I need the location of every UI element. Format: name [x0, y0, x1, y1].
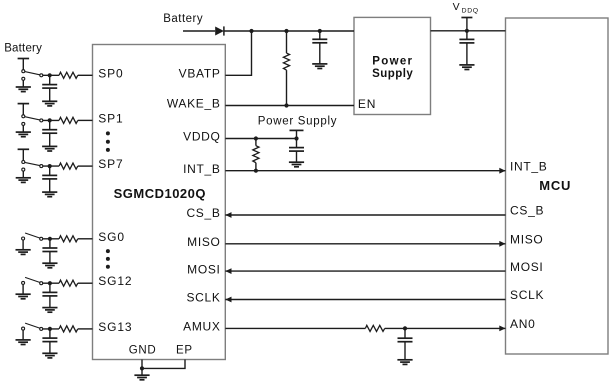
wire S5 to R row5	[43, 282, 59, 284]
ground for S4 contact	[16, 250, 31, 255]
svg-text:CS_B: CS_B	[186, 206, 220, 220]
capacitor C4 AMUX filter	[398, 328, 413, 341]
wire C2 to ground	[466, 43, 468, 65]
junction node row 3	[48, 164, 52, 168]
power supply tap symbol	[290, 130, 304, 138]
svg-text:MISO: MISO	[510, 233, 543, 247]
capacitor C row6	[42, 329, 57, 342]
ground contact of S1	[22, 77, 25, 87]
svg-text:WAKE_B: WAKE_B	[167, 97, 221, 111]
ground for C row5	[42, 308, 57, 313]
ground for S5 contact	[16, 294, 31, 299]
svg-text:Power: Power	[372, 56, 413, 68]
ground contact of S3	[22, 168, 25, 178]
wire R row4 to pin	[78, 238, 93, 240]
svg-text:EN: EN	[358, 97, 376, 111]
svg-text:VDDQ: VDDQ	[183, 130, 220, 144]
wire C row2 to ground	[49, 133, 51, 146]
ground for C4	[397, 360, 412, 365]
ground for C row6	[42, 353, 57, 358]
svg-text:Battery: Battery	[163, 13, 203, 25]
capacitor C row3	[42, 166, 57, 179]
svg-text:SP1: SP1	[98, 111, 123, 125]
wire C row4 to ground	[49, 252, 51, 264]
junction node battery rail to R-wake	[284, 29, 288, 33]
arrowhead MISO into MCU	[499, 241, 505, 247]
switch S3 (switch-to-battery)	[22, 161, 43, 168]
svg-text:CS_B: CS_B	[510, 204, 544, 218]
wire D1 cathode to power supply VIN	[224, 30, 354, 32]
wire C row6 to ground	[49, 342, 51, 354]
wire C row5 to ground	[49, 296, 51, 308]
svg-text:SGMCD1020Q: SGMCD1020Q	[114, 186, 206, 201]
svg-text:MCU: MCU	[539, 178, 571, 193]
svg-text:Supply: Supply	[372, 68, 413, 80]
wire battery to diode D1 anode	[183, 30, 215, 32]
junction node VDDQ rail	[465, 29, 469, 33]
switch S1 (switch-to-battery)	[22, 70, 43, 77]
junction node R2 on WAKE_B net	[284, 103, 288, 107]
junction node VDDQ pin to C3	[294, 136, 298, 140]
ground for S6 contact	[16, 340, 31, 345]
svg-text:SP7: SP7	[98, 157, 123, 171]
wire R row6 to pin	[78, 328, 93, 330]
power supply module U2 block	[354, 17, 431, 114]
switch S6 (switch-to-ground, open)	[25, 323, 43, 330]
svg-text:Battery: Battery	[4, 43, 42, 55]
svg-text:INT_B: INT_B	[510, 159, 548, 173]
capacitor C3 VDDQ pin decoupling	[289, 139, 304, 152]
capacitor C1 battery rail	[312, 31, 327, 43]
wire CS_B net	[225, 214, 505, 216]
ground for GND and EP pins	[134, 375, 149, 380]
wire R row2 to pin	[78, 119, 93, 121]
resistor R3 VDDQ pull-up for INT_B	[253, 146, 259, 163]
wire C row1 to ground	[49, 88, 51, 101]
diode D1	[215, 26, 224, 35]
junction node row 6	[48, 327, 52, 331]
arrowhead CS_B into U1	[225, 212, 231, 218]
arrowhead MOSI into U1	[225, 268, 231, 274]
ground contact of switch S5	[22, 281, 25, 294]
wire S6 to R row6	[43, 328, 59, 330]
wire SCLK net	[225, 299, 505, 301]
svg-text:SP0: SP0	[98, 66, 123, 80]
resistor R row3 series	[59, 163, 78, 169]
wire C1 to ground	[319, 43, 321, 64]
battery feed bar for switch S2	[18, 104, 30, 115]
svg-text:AN0: AN0	[510, 317, 535, 331]
junction node row 1	[48, 73, 52, 77]
MCU U3 block	[506, 18, 609, 354]
svg-text:GND: GND	[129, 345, 157, 357]
IC U1 SGMCD1020Q block	[93, 45, 226, 360]
ellipsis dots SP1..SP7	[106, 131, 110, 152]
ground for C row4	[42, 263, 57, 268]
wire VDDQ pin net	[225, 138, 296, 140]
wire INT_B net	[225, 170, 505, 172]
wire GND pin to ground	[141, 360, 143, 376]
ground for C2	[459, 65, 474, 70]
wire power supply output to MCU VDD	[431, 30, 506, 32]
junction node row 5	[48, 281, 52, 285]
junction node VDDQ pin to R3	[254, 136, 258, 140]
wire S3 to R row3	[43, 165, 59, 167]
svg-text:EP: EP	[176, 345, 193, 357]
ground for C3	[289, 162, 304, 167]
ground for C row1	[42, 101, 57, 106]
ground for C row3	[42, 192, 57, 197]
switch S5 (switch-to-ground, open)	[25, 277, 43, 284]
arrowhead INT_B into MCU	[499, 168, 505, 174]
svg-text:Power Supply: Power Supply	[258, 115, 337, 127]
wire S1 to R row1	[43, 74, 59, 76]
capacitor C row5	[42, 283, 57, 296]
ground for S3 contact	[16, 178, 31, 183]
svg-text:V: V	[453, 1, 460, 13]
junction node row 2	[48, 118, 52, 122]
svg-text:MOSI: MOSI	[187, 262, 220, 276]
switch S2 (switch-to-battery)	[22, 115, 43, 122]
junction node VBAT_D at battery rail	[249, 29, 253, 33]
ground for S2 contact	[16, 132, 31, 137]
resistor R4 AMUX series	[365, 325, 384, 331]
ellipsis dots SG0..SG12	[106, 249, 110, 269]
wire R2 bottom to WAKE_B net	[286, 70, 288, 105]
wire MOSI net	[225, 270, 505, 272]
svg-text:MOSI: MOSI	[510, 260, 543, 274]
wire S4 to R row4	[43, 238, 59, 240]
svg-text:AMUX: AMUX	[183, 320, 220, 334]
resistor R row1 series	[59, 72, 78, 78]
wire C row3 to ground	[49, 179, 51, 192]
svg-text:SG13: SG13	[98, 320, 132, 334]
ground contact of switch S4	[22, 237, 25, 250]
wire C4 to ground	[404, 342, 406, 360]
ground contact of switch S6	[22, 327, 25, 340]
VDDQ supply symbol	[461, 18, 472, 31]
battery feed bar for switch S3	[18, 149, 30, 160]
battery feed bar for switch S1	[18, 59, 30, 70]
ground for C1	[312, 64, 327, 69]
wire C3 to ground	[296, 151, 298, 162]
wire AMUX pin to R4	[225, 327, 365, 329]
svg-text:SCLK: SCLK	[510, 288, 544, 302]
capacitor C row4	[42, 239, 57, 252]
arrowhead SCLK into U1	[225, 297, 231, 303]
wire R3 bottom to INT_B net	[255, 163, 257, 171]
ground for C row2	[42, 146, 57, 151]
svg-text:SG12: SG12	[98, 274, 132, 288]
capacitor C2 VDDQ decoupling	[459, 31, 474, 43]
svg-text:MISO: MISO	[187, 235, 220, 249]
wire R row3 to pin	[78, 165, 93, 167]
svg-text:SCLK: SCLK	[186, 291, 220, 305]
wire S2 to R row2	[43, 119, 59, 121]
capacitor C row1	[42, 75, 57, 88]
resistor R2 battery rail to WAKE_B	[283, 53, 289, 70]
wire R4 to AN0 pin	[385, 327, 506, 329]
wire VDDQ to R3 top	[255, 139, 257, 146]
ground contact of S2	[22, 122, 25, 132]
capacitor C row2	[42, 120, 57, 133]
junction node row 4	[48, 237, 52, 241]
wire MISO net	[225, 243, 505, 245]
resistor R row6 series	[59, 326, 78, 332]
arrowhead AN0 into MCU	[499, 326, 505, 332]
svg-text:DDQ: DDQ	[462, 8, 479, 15]
junction node R3 on INT_B net	[254, 169, 258, 173]
resistor R row4 series	[59, 236, 78, 242]
ground for S1 contact	[16, 87, 31, 92]
wire WAKE_B pin to EN pin	[225, 105, 354, 107]
svg-text:SG0: SG0	[98, 230, 125, 244]
wire VBATP pin to battery rail	[225, 31, 251, 75]
svg-text:INT_B: INT_B	[183, 162, 221, 176]
svg-text:VBATP: VBATP	[179, 67, 221, 81]
wire R row5 to pin	[78, 282, 93, 284]
wire R row1 to pin	[78, 74, 93, 76]
resistor R row5 series	[59, 280, 78, 286]
resistor R row2 series	[59, 117, 78, 123]
wire EP pin to GND net	[142, 360, 185, 369]
wire battery rail to R2 top	[286, 31, 288, 53]
junction node AMUX filter	[403, 326, 407, 330]
junction node GND-EP tie	[140, 366, 144, 370]
switch S4 (switch-to-ground, open)	[25, 233, 43, 240]
junction node battery rail to C-bat	[318, 29, 322, 33]
